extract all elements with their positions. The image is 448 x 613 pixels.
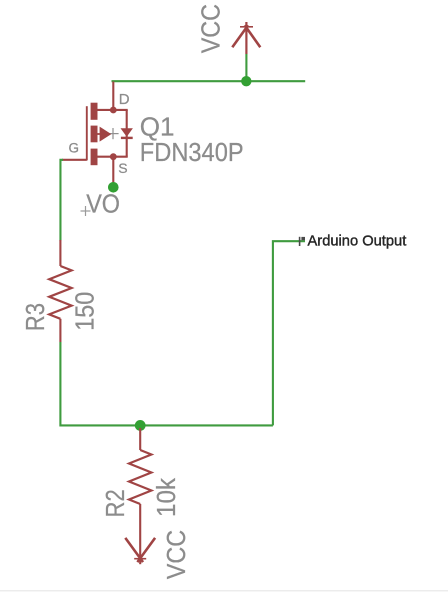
svg-text:D: D	[119, 91, 130, 108]
body diode branch	[126, 110, 128, 157]
net label Arduino Output	[308, 234, 407, 250]
power symbol VCC (top)	[232, 22, 260, 54]
svg-text:R3: R3	[22, 303, 51, 331]
source pin	[112, 157, 114, 184]
svg-text:Arduino Output: Arduino Output	[308, 234, 407, 250]
gate pin	[62, 159, 87, 161]
svg-text:10k: 10k	[152, 478, 181, 517]
channel bars	[91, 103, 98, 120]
VCC label (top)	[197, 4, 225, 53]
substrate arrow	[98, 133, 100, 135]
svg-text:VCC: VCC	[163, 530, 191, 579]
wire R3 to bottom rail and bottom rail	[60, 342, 273, 425]
drain pin	[112, 82, 114, 111]
wire Arduino output branch	[273, 241, 305, 425]
net label VO	[81, 190, 120, 218]
wire gate to R3	[60, 160, 63, 241]
label R3	[22, 303, 51, 331]
resistor R2	[129, 428, 151, 564]
label 10k	[152, 478, 181, 517]
wire VCC stub	[245, 54, 247, 81]
svg-text:R2: R2	[102, 489, 131, 517]
junction dot top rail	[241, 76, 251, 86]
svg-text:FDN340P: FDN340P	[140, 139, 244, 167]
svg-text:150: 150	[72, 292, 100, 331]
svg-text:VO: VO	[86, 190, 120, 218]
transistor Q1 (P-MOSFET FDN340P)	[62, 82, 133, 184]
pin label G	[69, 140, 80, 155]
label R2	[102, 489, 131, 517]
svg-text:Q1: Q1	[140, 111, 175, 141]
junction dot bottom rail	[135, 420, 146, 431]
pin label S	[118, 160, 127, 176]
origin cross	[107, 128, 118, 139]
label FDN340P	[140, 139, 244, 167]
label Q1	[140, 111, 175, 141]
source horizontal	[97, 156, 127, 158]
junction dot VO node	[108, 182, 119, 193]
pin label D	[119, 91, 130, 108]
drain horizontal	[97, 109, 127, 111]
resistor R3	[49, 240, 71, 342]
gate bar	[86, 106, 88, 160]
svg-text:S: S	[118, 160, 127, 176]
label 150	[72, 292, 100, 331]
power symbol VCC (bottom)	[125, 538, 155, 562]
svg-text:VCC: VCC	[197, 4, 225, 53]
net port marker (Arduino Output)	[300, 237, 305, 246]
svg-text:G: G	[69, 140, 80, 155]
VCC label (bottom)	[163, 530, 191, 579]
wire top rail	[112, 80, 306, 82]
